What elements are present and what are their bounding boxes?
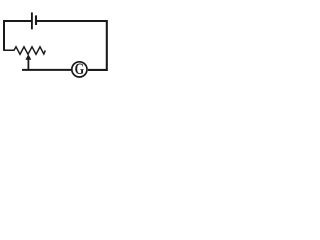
svg-text:G: G	[75, 61, 85, 79]
